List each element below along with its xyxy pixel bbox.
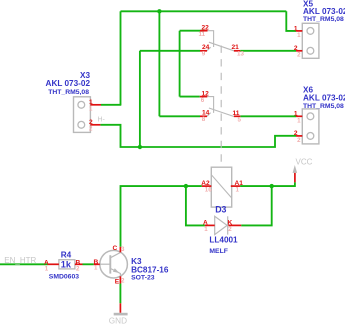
- wire net N1 top horizontal: [121, 10, 287, 12]
- relay contact upper: arm: [209, 42, 234, 51]
- wire down to diode anode: [186, 186, 205, 225]
- X3 pin 2: [90, 124, 100, 126]
- svg-text:3: 3: [121, 246, 125, 253]
- svg-text:1: 1: [204, 226, 208, 233]
- relay contact upper: pin 24 tick: [207, 47, 211, 51]
- svg-text:11: 11: [199, 31, 206, 38]
- X6 pin 2: [296, 135, 302, 137]
- junction N1: [157, 9, 161, 13]
- coil pin A1: [231, 185, 240, 187]
- svg-text:LL4001: LL4001: [209, 235, 238, 244]
- K3 pin B: [94, 263, 100, 265]
- diode D3 body: [215, 216, 228, 234]
- connector X5 body: [302, 23, 319, 58]
- wire N1 right vertical to X5 pin1: [286, 11, 296, 31]
- wire pin12 horizontal: [180, 96, 200, 98]
- X5 pin 2: [296, 50, 302, 52]
- relay coil body: [211, 167, 231, 207]
- svg-text:2: 2: [121, 278, 125, 285]
- svg-text:D3: D3: [215, 205, 226, 215]
- connector X3 body: [74, 97, 91, 133]
- relay contact lower: arm: [209, 108, 234, 117]
- coil pin A2: [202, 185, 212, 187]
- relay contact upper: pin 22 stub: [208, 31, 214, 47]
- relay mechanical dashed link: [220, 46, 222, 185]
- wire coil A2 to transistor collector: [121, 186, 202, 247]
- diode pin A: [205, 224, 215, 226]
- svg-text:2: 2: [294, 130, 298, 137]
- wire N1 left vertical to X3 pin1: [120, 11, 122, 105]
- svg-text:VCC: VCC: [296, 158, 313, 167]
- wire X3 pin2 to X6 pin2 (net H-): [100, 125, 296, 147]
- relay pin 12: [200, 96, 208, 98]
- svg-text:2: 2: [297, 52, 301, 59]
- svg-text:1: 1: [236, 187, 240, 194]
- svg-text:1: 1: [94, 265, 98, 272]
- X3 pin 1: [90, 104, 101, 106]
- wire X3 pin1 horizontal: [101, 104, 121, 106]
- relay pin 24: [200, 50, 207, 52]
- wire EN_HTR to R4: [0, 263, 48, 265]
- resistor R4 body: [59, 260, 75, 269]
- svg-text:AKL 073-02: AKL 073-02: [303, 94, 345, 103]
- junction diode A: [184, 184, 188, 188]
- diode pin K: [228, 224, 241, 226]
- VCC supply symbol: [293, 165, 298, 182]
- wire down to diode cathode: [241, 186, 272, 225]
- GND symbol: [114, 303, 128, 315]
- svg-text:1: 1: [89, 106, 93, 113]
- svg-text:EN_HTR: EN_HTR: [4, 256, 36, 265]
- junction diode K: [270, 184, 274, 188]
- svg-text:AKL 073-02: AKL 073-02: [303, 7, 345, 16]
- relay pin 22: [200, 30, 208, 32]
- svg-text:2: 2: [297, 137, 301, 144]
- wire coil A1 to VCC: [240, 182, 295, 186]
- K3 pin C: [119, 247, 121, 253]
- X6 pin 1: [296, 115, 302, 117]
- svg-text:2: 2: [76, 266, 80, 273]
- R4 pin A: [48, 263, 59, 265]
- svg-text:THT_RM5,08: THT_RM5,08: [48, 89, 89, 96]
- svg-text:E: E: [115, 279, 120, 286]
- svg-text:13: 13: [237, 50, 244, 57]
- wire pin21 to X5 pin2: [240, 50, 296, 52]
- svg-text:6: 6: [201, 97, 205, 104]
- junction H-: [138, 145, 142, 149]
- wire pin11 to X6 pin1: [240, 115, 296, 117]
- svg-text:THT_RM5,08: THT_RM5,08: [303, 103, 344, 110]
- wire emitter to GND: [119, 284, 121, 304]
- svg-text:MELF: MELF: [209, 248, 228, 255]
- wire R4 to base: [83, 263, 94, 265]
- R4 pin B: [75, 263, 83, 265]
- relay contact lower: pin 14 tick: [207, 113, 211, 117]
- svg-text:1k: 1k: [61, 260, 72, 270]
- svg-text:R4: R4: [61, 250, 72, 259]
- wire pin22-pin12 vertical: [179, 31, 181, 97]
- wire pin24 vertical to H- net: [139, 51, 141, 147]
- svg-text:AKL 073-02: AKL 073-02: [46, 79, 91, 88]
- svg-text:1: 1: [297, 32, 301, 39]
- relay contact lower: pin 12 stub: [207, 97, 213, 113]
- wire pin24 horizontal: [140, 50, 200, 52]
- svg-text:GND: GND: [109, 316, 127, 324]
- svg-text:1: 1: [45, 266, 49, 273]
- X5 pin 1: [296, 30, 302, 32]
- transistor K3 body: [100, 250, 128, 278]
- svg-text:1: 1: [294, 111, 298, 118]
- svg-text:THT_RM5,08: THT_RM5,08: [303, 16, 344, 23]
- relay pin 14: [200, 115, 207, 117]
- svg-text:1: 1: [297, 118, 301, 125]
- svg-text:2: 2: [228, 226, 232, 233]
- svg-text:16: 16: [205, 187, 212, 194]
- wire pin22 horizontal: [180, 30, 204, 32]
- wire to pin14 horizontal: [159, 115, 200, 117]
- svg-text:5: 5: [238, 116, 242, 123]
- svg-text:SMD0603: SMD0603: [49, 273, 79, 280]
- svg-text:2: 2: [89, 126, 93, 133]
- relay pin 11: [234, 115, 240, 117]
- svg-text:8: 8: [202, 116, 206, 123]
- svg-text:BC817-16: BC817-16: [131, 265, 169, 274]
- K3 pin E: [119, 276, 121, 283]
- svg-text:SOT-23: SOT-23: [131, 274, 155, 281]
- connector X6 body: [302, 109, 319, 144]
- relay pin 21: [234, 50, 240, 52]
- svg-text:H-: H-: [98, 116, 106, 123]
- wire N1 mid vertical to pin14: [158, 11, 160, 116]
- svg-text:9: 9: [202, 50, 206, 57]
- svg-text:C: C: [113, 245, 118, 252]
